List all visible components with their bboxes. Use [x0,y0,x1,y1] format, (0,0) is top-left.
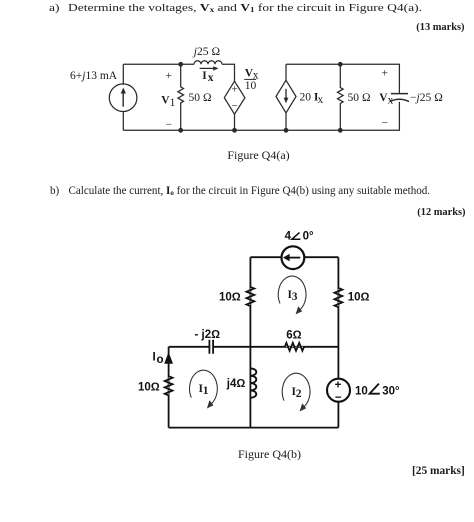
resistor 50 ohm (V1 branch) [178,64,184,130]
label Vx/10 fraction [244,67,259,92]
svg-text:30°: 30° [382,385,400,397]
wire: circuit1 top-right segment [286,64,399,93]
marks (12 marks) [0,206,466,219]
label + inside voltage source [335,379,342,391]
svg-text:3: 3 [292,291,298,303]
label 50 ohm (right) [348,92,371,104]
label Io (output current) [153,352,164,367]
svg-text:−: − [382,118,389,130]
svg-text:10: 10 [245,80,257,92]
voltage source 10 angle 30 [327,379,350,402]
svg-text:10Ω: 10Ω [219,292,241,304]
label 10 ohm right [348,292,370,304]
node dot top V1 [178,62,183,67]
label 6+j13 mA [70,70,118,82]
svg-text:20 I: 20 I [300,92,319,104]
svg-text:j25 Ω: j25 Ω [192,46,221,58]
inductor j25 ohm [194,61,222,65]
node dot under Vx/10 source [232,128,237,133]
capacitor -j2 ohm [209,340,213,354]
svg-text:+: + [231,83,238,95]
label 4 angle 0 [285,230,314,242]
capacitor -j25 ohm [390,94,409,102]
label 10 angle 30 [355,384,400,398]
svg-text:−j25 Ω: −j25 Ω [410,92,443,104]
dependent source 20Ix (diamond) [276,80,296,130]
resistor 50 ohm (right) [337,64,343,130]
resistor 6 ohm [285,343,304,351]
label 10 ohm left top [219,292,241,304]
svg-text:10Ω: 10Ω [138,382,160,394]
label Ix (inductor current) [202,70,214,84]
mesh current I1 [190,370,218,408]
inductor j4 ohm [250,368,256,397]
svg-text:2: 2 [296,388,302,400]
label - of V1 [166,119,173,131]
svg-text:6Ω: 6Ω [286,329,301,341]
svg-text:+: + [335,379,342,391]
wire: circuit1 top-left segment to dependent source [123,64,234,81]
caption Figure Q4(a) [0,149,474,162]
question text b) [50,185,59,198]
svg-text:1: 1 [170,97,176,109]
marks [25 marks] [0,465,465,478]
label 6 ohm [286,329,301,341]
node dot under 20Ix source [284,128,289,133]
svg-text:+: + [166,70,173,82]
label -j25 ohm [410,92,443,104]
wire: circuit1 bottom [123,102,399,131]
arrow Ix current [200,66,219,70]
label - inside voltage source [335,392,342,404]
label - inside Vx/10 [231,100,238,112]
svg-text:50 Ω: 50 Ω [348,92,371,104]
mesh current I2 [282,373,310,411]
wire: circuit2 left-top branch [249,257,251,427]
wire: circuit2 bottom [169,427,339,429]
label + of Vx [382,68,389,80]
resistor 10 ohm (right) [335,288,343,307]
svg-text:1: 1 [203,385,209,397]
arrow Io [164,352,173,364]
current source 6+j13 mA [109,84,137,112]
wire: circuit2 right branch [337,257,339,427]
svg-text:10: 10 [355,385,368,397]
label -j2 ohm [195,329,221,341]
svg-text:I: I [202,70,207,82]
svg-text:o: o [157,354,164,366]
svg-text:10Ω: 10Ω [348,292,370,304]
wire: circuit2 middle [169,346,339,348]
mesh current I3 [278,276,306,314]
wire: circuit2 top [250,256,338,258]
dependent source Vx/10 (diamond) [224,81,245,130]
label 20 Ix [300,92,324,107]
label Vx [379,92,393,107]
label - of Vx [382,118,389,130]
node dot bottom 50ohm right [338,128,343,133]
label j4 ohm [226,378,246,390]
question text a) [49,2,59,15]
svg-text:x: x [318,94,324,106]
label j25 ohm [192,46,221,58]
node dot top 50ohm right [338,62,343,67]
svg-text:j4Ω: j4Ω [226,378,246,390]
label + of V1 [166,70,173,82]
svg-text:x: x [208,72,214,84]
svg-text:- j2Ω: - j2Ω [195,329,221,341]
svg-text:x: x [388,94,394,106]
svg-text:−: − [335,392,342,404]
current source 4 angle 0 [282,246,305,269]
svg-text:I: I [153,352,156,364]
svg-text:−: − [231,100,238,112]
node dot bottom V1 [178,128,183,133]
label V1 [161,94,175,109]
label 10 ohm far left [138,382,160,394]
resistor 10 ohm (left top) [246,287,254,306]
wire: circuit1 left branch [122,64,124,130]
svg-text:6+j13 mA: 6+j13 mA [70,70,118,82]
resistor 10 ohm (far left) [165,376,173,395]
svg-text:−: − [166,119,173,131]
label + inside Vx/10 [231,83,238,95]
svg-text:50 Ω: 50 Ω [189,92,212,104]
svg-text:4: 4 [285,230,292,242]
svg-text:0°: 0° [303,230,314,242]
caption Figure Q4(b) [0,448,474,461]
marks (13 marks) [0,21,465,34]
label 50 ohm (V1 branch) [189,92,212,104]
svg-text:+: + [382,68,389,80]
wire: circuit2 far-left branch [168,347,170,428]
